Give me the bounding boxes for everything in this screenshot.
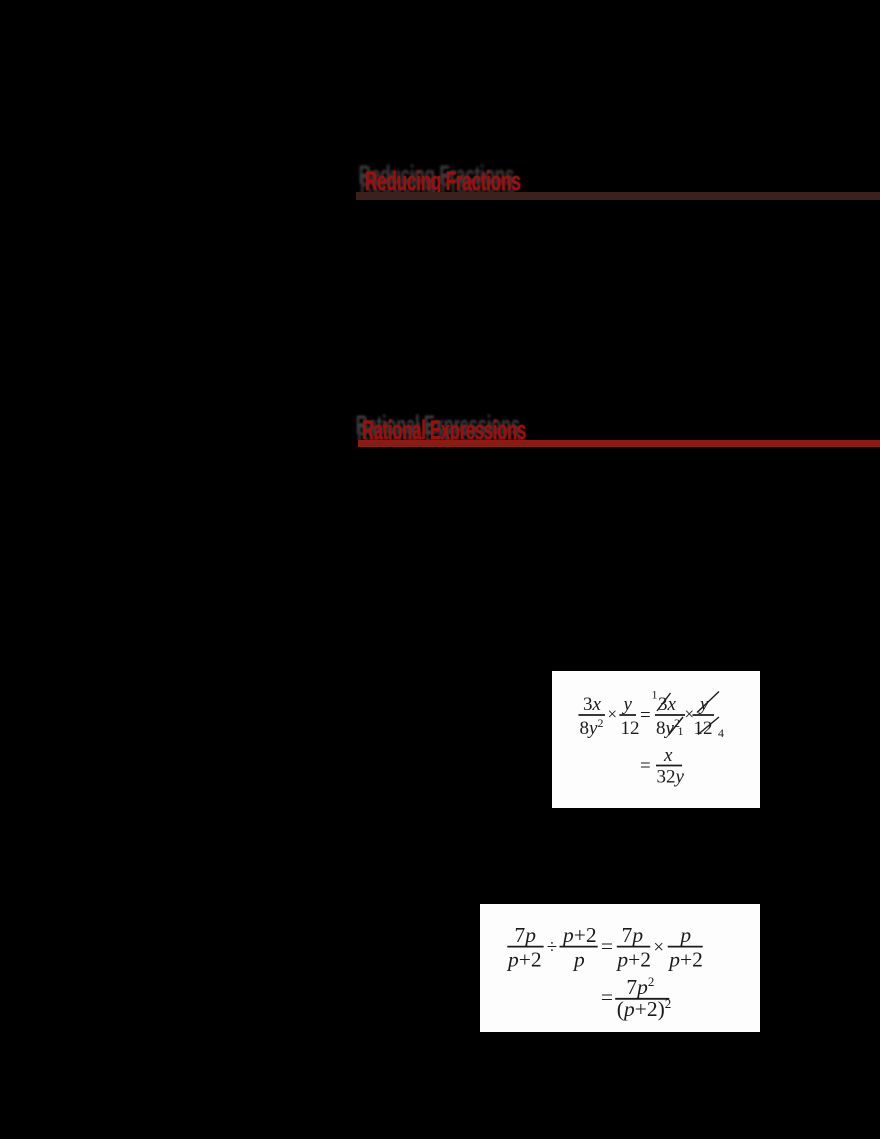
svg-text:=: = (640, 705, 651, 726)
equation line 1 (579, 688, 725, 741)
svg-text:3x: 3x (583, 694, 602, 715)
svg-text:p+2: p+2 (561, 923, 597, 947)
svg-text:(p+2)2: (p+2)2 (617, 996, 671, 1021)
svg-text:=: = (601, 985, 613, 1009)
underline 1 (356, 192, 880, 200)
white box 1: multiply 3x/8y^2 * y/12 (552, 671, 760, 808)
svg-text:÷: ÷ (547, 937, 557, 958)
white box 2: divide 7p/(p+2) by (p+2)/p (480, 904, 760, 1032)
svg-text:12: 12 (694, 718, 713, 739)
svg-text:7p2: 7p2 (626, 974, 654, 999)
svg-text:p: p (572, 948, 585, 972)
svg-text:p+2: p+2 (615, 948, 651, 972)
underline 2 (358, 440, 880, 447)
equation line 2 : = x/32y (640, 745, 685, 788)
svg-text:1: 1 (678, 724, 684, 738)
equation line 2 : = 7p^2/(p+2)^2 (601, 974, 671, 1021)
svg-text:4: 4 (718, 726, 724, 740)
svg-text:×: × (653, 937, 664, 958)
svg-text:=: = (601, 934, 613, 958)
svg-text:8y2: 8y2 (580, 716, 604, 739)
svg-text:8y2: 8y2 (656, 716, 680, 739)
svg-text:x: x (663, 745, 673, 766)
equation line 1 (506, 923, 703, 972)
svg-text:p+2: p+2 (506, 948, 542, 972)
heading 1: Reducing Fractions (365, 166, 521, 197)
svg-text:y: y (622, 694, 633, 715)
svg-text:=: = (640, 756, 651, 777)
svg-text:p: p (678, 923, 691, 947)
svg-text:1: 1 (652, 688, 658, 702)
svg-text:7p: 7p (622, 923, 644, 947)
svg-text:y: y (698, 694, 709, 715)
svg-text:p+2: p+2 (667, 948, 703, 972)
svg-text:7p: 7p (515, 923, 537, 947)
svg-text:32y: 32y (657, 767, 685, 788)
heading 2: Rational Expressions (362, 415, 526, 446)
svg-text:12: 12 (621, 718, 640, 739)
svg-text:×: × (608, 705, 618, 724)
